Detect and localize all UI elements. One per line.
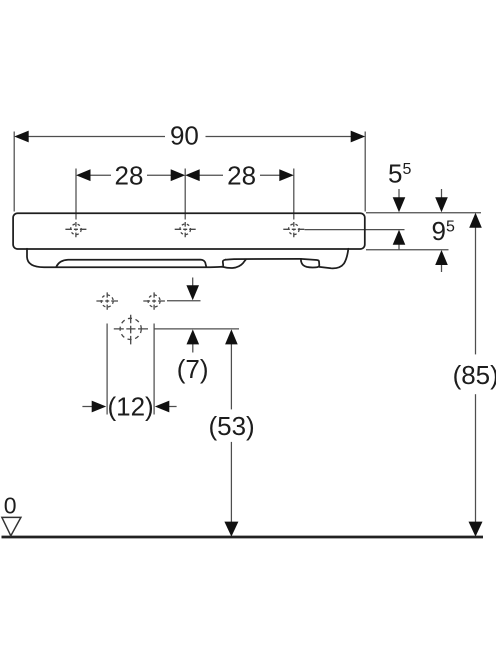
bowl inner middle line — [225, 258, 301, 261]
9.5 dim down arrow tail — [441, 189, 443, 198]
svg-text:28: 28 — [227, 160, 256, 190]
tap hole 3 centrelines — [283, 222, 304, 237]
floor line — [2, 536, 484, 539]
bowl outer right contour — [319, 249, 348, 269]
svg-text:90: 90 — [170, 121, 199, 151]
drain hole plane extension line — [155, 328, 240, 330]
arrowhead 12 right pointing left — [155, 401, 170, 413]
dimension line 28 first left segment — [88, 174, 111, 176]
12 dim left arrow tail — [82, 406, 94, 408]
arrowhead 5.5 down — [393, 197, 406, 212]
extension line left of 12 dim — [106, 324, 108, 415]
arrowhead 53 bottom down — [224, 522, 238, 537]
svg-text:55: 55 — [388, 159, 411, 189]
rim bottom extension line right — [366, 249, 449, 251]
basin top edge extension line right — [366, 212, 481, 214]
dimension line 28 second right segment — [260, 174, 282, 176]
extension line tap hole 3 — [293, 169, 295, 220]
arrowhead 28 second right — [279, 169, 294, 181]
svg-text:28: 28 — [115, 160, 144, 190]
arrowhead 5.5 up — [393, 230, 406, 245]
svg-text:(12): (12) — [107, 392, 153, 422]
bowl left pocket blunt edge — [222, 260, 226, 267]
extension line right of 12 dim — [153, 324, 155, 415]
svg-text:95: 95 — [432, 216, 455, 246]
tap hole 2 centrelines — [175, 222, 196, 237]
dimension line 28 first right segment — [147, 174, 173, 176]
9.5 dim up arrow tail — [441, 265, 443, 273]
washbasin rim outline — [13, 213, 365, 268]
bowl right pocket — [301, 259, 319, 268]
85 dim vertical line upper segment — [475, 227, 477, 354]
extension line tap hole 1 — [75, 169, 77, 220]
extension line tap hole 2 — [184, 169, 186, 220]
tap hole centre plane extension line right — [305, 229, 405, 231]
dimension line 90 left segment — [26, 136, 165, 138]
arrowhead 90 left — [14, 131, 29, 143]
svg-text:(85): (85) — [453, 360, 496, 390]
arrowhead 90 right — [351, 131, 366, 143]
svg-text:(53): (53) — [208, 411, 254, 441]
dimension line 90 right segment — [206, 136, 354, 138]
53 dim vertical line upper segment — [230, 344, 232, 410]
drain hole centrelines — [114, 315, 148, 345]
bowl left pocket bottom sweep — [223, 260, 246, 268]
bowl outer left contour and bottom line — [27, 249, 222, 267]
arrowhead 53 top up — [225, 329, 238, 344]
12 dim right arrow tail — [166, 406, 177, 408]
dimension line 28 second left segment — [197, 174, 223, 176]
arrowhead 12 left pointing right — [92, 401, 107, 413]
fixing hole left centrelines — [96, 292, 118, 309]
arrowhead 9.5 up — [435, 250, 448, 265]
fixing hole right centrelines — [143, 292, 165, 309]
datum triangle — [2, 517, 21, 535]
down arrow tail to fixing hole plane — [192, 278, 194, 287]
arrowhead 28 first left — [76, 169, 91, 181]
arrowhead 9.5 down — [435, 197, 448, 212]
85 dim vertical line lower segment — [475, 394, 477, 522]
bowl inner left contour — [57, 260, 207, 267]
rim rectangle — [13, 213, 365, 249]
extension line right of 90 dim — [364, 132, 366, 212]
arrows (filled) — [14, 131, 482, 537]
arrowhead 28 first right — [171, 169, 186, 181]
fixing hole plane extension line — [167, 300, 201, 302]
arrowhead 28 second left — [185, 169, 200, 181]
svg-text:0: 0 — [4, 493, 17, 519]
7 dim up arrow tail — [192, 344, 194, 353]
arrowhead pointing down at fixing hole plane — [186, 285, 199, 300]
extension line left of 90 dim — [13, 132, 15, 212]
svg-text:(7): (7) — [177, 354, 209, 384]
tap hole 1 centrelines — [65, 222, 86, 237]
arrowhead 7 up — [187, 329, 200, 344]
5.5 dim up arrow tail — [398, 244, 400, 250]
5.5 dim down arrow tail — [398, 189, 400, 198]
arrowhead 85 bottom down — [469, 522, 483, 537]
arrowhead 85 top up — [469, 213, 482, 228]
wire — [14, 132, 481, 523]
53 dim vertical line lower segment — [230, 442, 232, 522]
tap hole cross symbols — [65, 222, 304, 344]
